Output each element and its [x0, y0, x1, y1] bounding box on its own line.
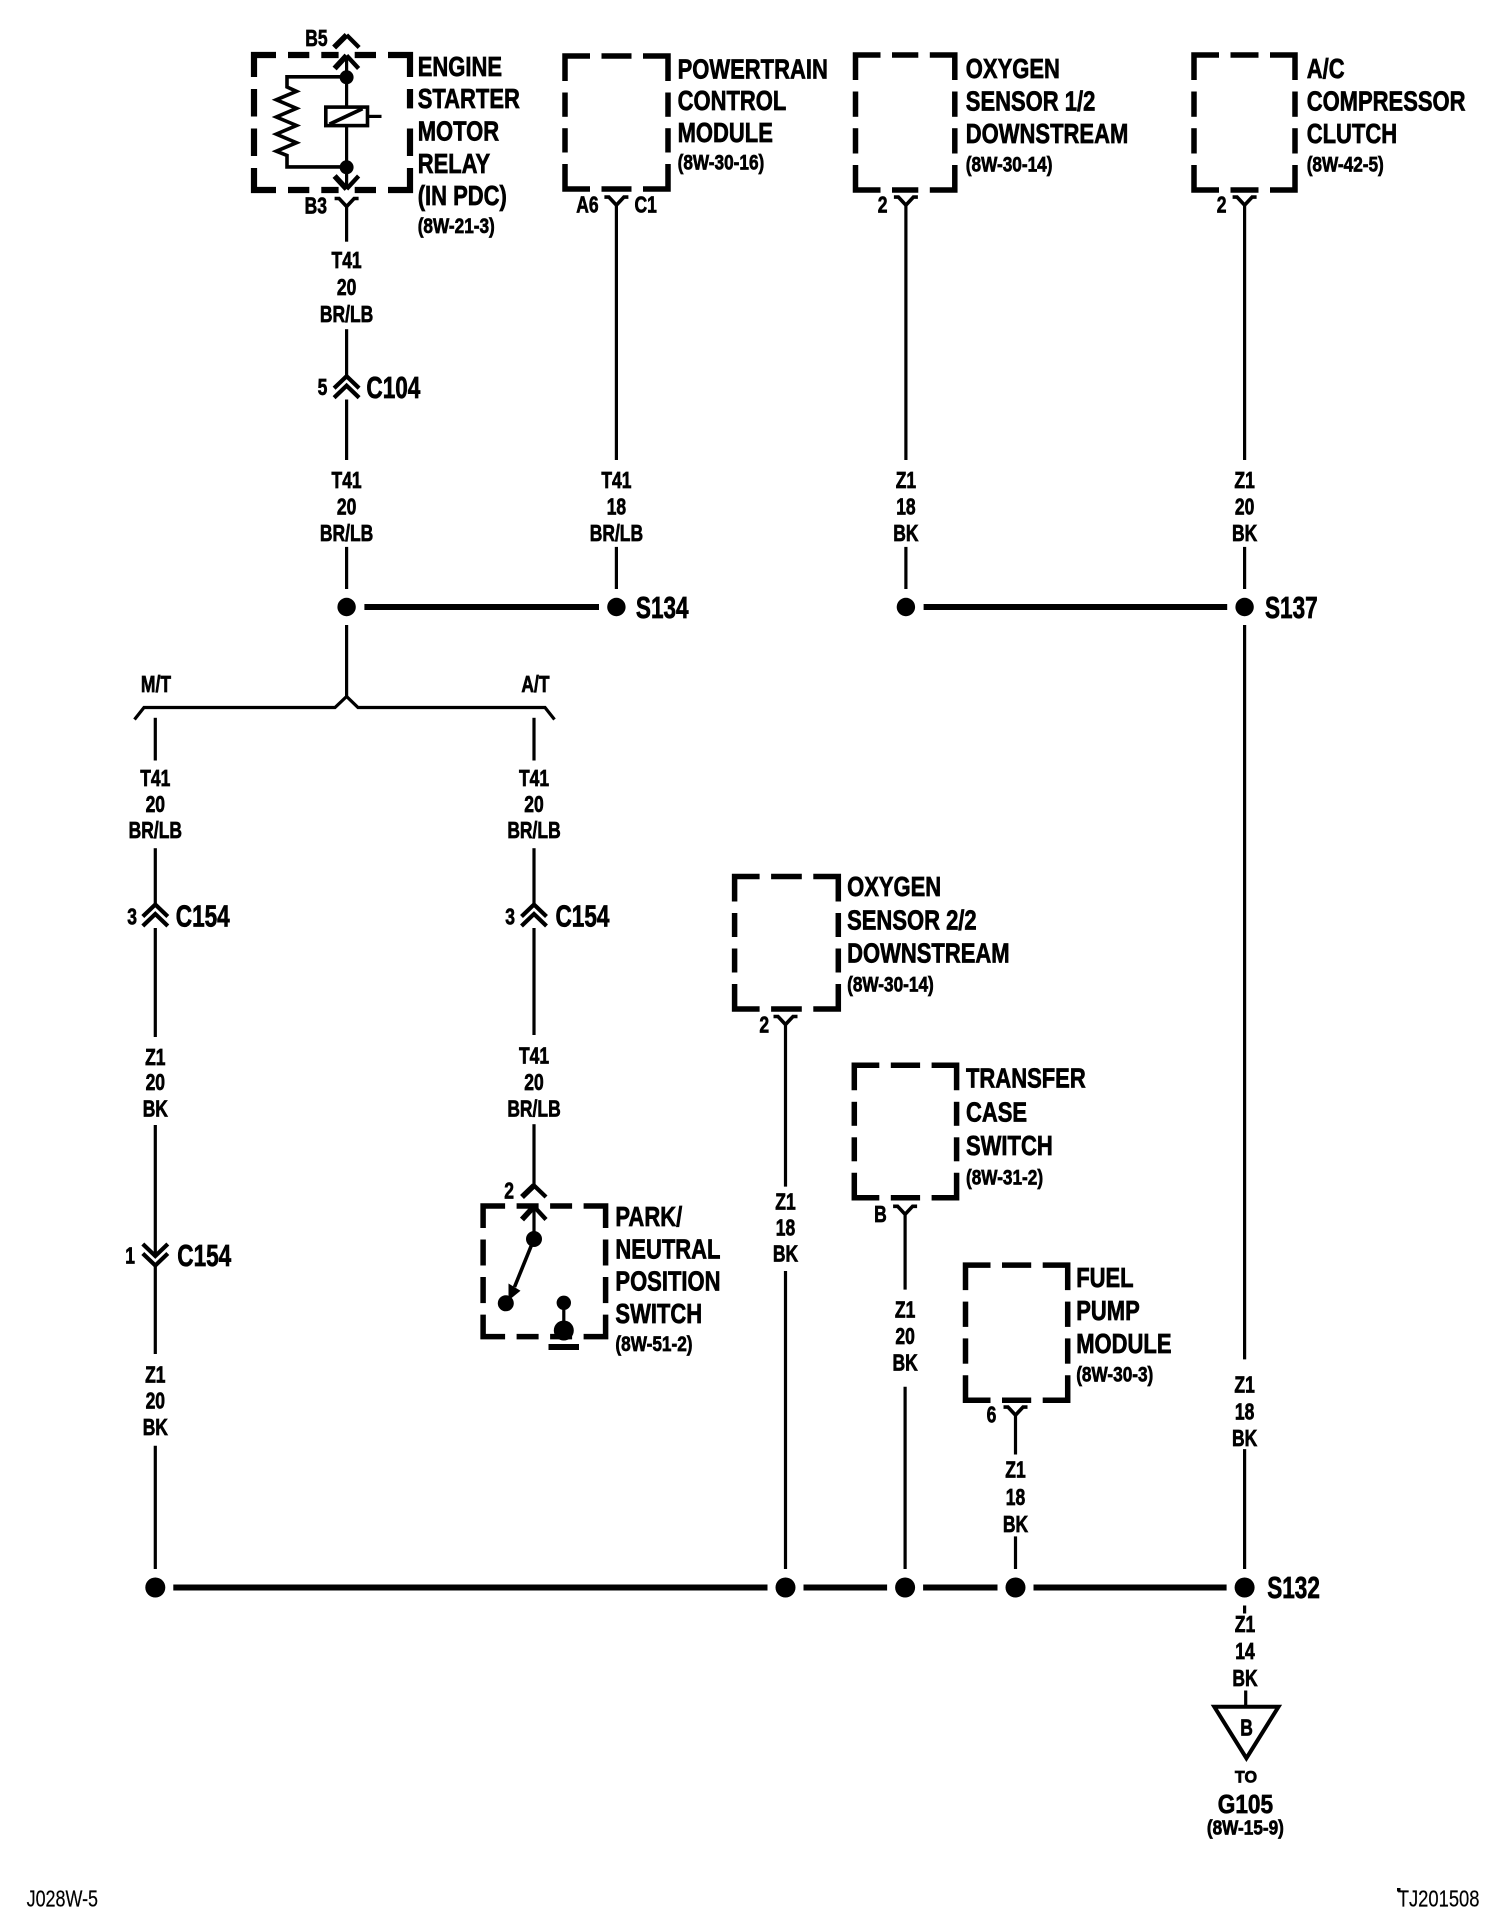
svg-text:2: 2 [759, 1014, 769, 1039]
svg-text:A/C: A/C [1307, 54, 1345, 85]
svg-text:BK: BK [1232, 1667, 1257, 1692]
svg-text:18: 18 [896, 495, 915, 520]
connector Y at A/C pin 2 [1233, 197, 1245, 205]
wire segment to C154 pin 1 [154, 1125, 157, 1254]
wire segment A/T start [532, 718, 535, 761]
svg-text:BR/LB: BR/LB [507, 819, 560, 844]
svg-text:18: 18 [776, 1216, 795, 1241]
svg-text:20: 20 [337, 276, 356, 301]
PNP contact dot (park) [498, 1295, 514, 1311]
svg-text:Z1: Z1 [1235, 1613, 1255, 1638]
wire segment to C154 [154, 848, 157, 903]
svg-text:SENSOR 2/2: SENSOR 2/2 [847, 905, 977, 936]
svg-text:STARTER: STARTER [418, 84, 520, 115]
svg-text:B3: B3 [305, 194, 327, 219]
svg-text:BK: BK [143, 1416, 168, 1441]
svg-text:TJ201508: TJ201508 [1398, 1887, 1480, 1912]
junction dot S132 (A/C) [1235, 1578, 1255, 1598]
svg-text:FUEL: FUEL [1076, 1263, 1133, 1294]
connector Y at PCM A6 [604, 197, 616, 205]
wire segment O2 1/2 to S137 [904, 547, 907, 589]
svg-text:COMPRESSOR: COMPRESSOR [1307, 86, 1466, 117]
wire segment to PNP switch [532, 1124, 535, 1185]
svg-text:ENGINE: ENGINE [418, 52, 502, 83]
svg-text:SENSOR 1/2: SENSOR 1/2 [966, 86, 1096, 117]
connector Y at fuel pump pin 6 [1004, 1407, 1016, 1415]
O2 sensor 2/2 box: OXYGEN SENSOR 2/2 DOWNSTREAM [735, 877, 760, 902]
svg-text:20: 20 [524, 1071, 543, 1096]
relay junction dot top [340, 70, 354, 84]
svg-text:MOTOR: MOTOR [418, 116, 499, 147]
A/C compressor clutch box [1194, 55, 1219, 80]
svg-text:BK: BK [773, 1242, 798, 1267]
wire segment PCM to S134 [615, 547, 618, 589]
svg-text:(8W-42-5): (8W-42-5) [1307, 154, 1384, 177]
junction dot S132 (transfer case) [895, 1578, 915, 1598]
svg-text:(8W-51-2): (8W-51-2) [615, 1334, 692, 1357]
svg-text:NEUTRAL: NEUTRAL [615, 1234, 720, 1265]
svg-text:(8W-31-2): (8W-31-2) [966, 1167, 1043, 1190]
svg-text:A/T: A/T [521, 673, 550, 698]
junction dot S134 right [607, 598, 625, 616]
svg-text:BR/LB: BR/LB [507, 1097, 560, 1122]
connector Y at B3 [335, 199, 347, 207]
svg-text:(8W-21-3): (8W-21-3) [418, 215, 495, 238]
svg-text:2: 2 [1217, 193, 1227, 218]
svg-text:B: B [1240, 1716, 1253, 1741]
svg-text:3: 3 [505, 906, 515, 931]
wire segment to ground symbol [1244, 1691, 1247, 1707]
wire segment below C154 (A/T) [532, 928, 535, 1035]
svg-text:6: 6 [987, 1403, 997, 1428]
in-line connector C154 (A/T) [522, 905, 547, 917]
connector half-arrow above PNP [522, 1186, 534, 1198]
svg-text:18: 18 [607, 495, 626, 520]
wire stub below S132 [1243, 1606, 1246, 1614]
svg-text:20: 20 [146, 1389, 165, 1414]
relay coil [326, 107, 368, 126]
svg-text:BR/LB: BR/LB [129, 819, 182, 844]
O2 sensor 1/2 box: OXYGEN SENSOR 1/2 DOWNSTREAM [856, 55, 881, 80]
svg-text:G105: G105 [1218, 1790, 1273, 1819]
svg-text:Z1: Z1 [896, 469, 916, 494]
svg-text:BR/LB: BR/LB [320, 522, 373, 547]
PNP internal wire [532, 1207, 535, 1237]
junction dot S132 (fuel pump) [1006, 1578, 1026, 1598]
wire segment M/T start [154, 718, 157, 761]
wire segment to S132 [154, 1446, 157, 1569]
svg-text:OXYGEN: OXYGEN [966, 54, 1060, 85]
arrow into relay at top edge [335, 56, 347, 69]
PNP common contact dot [526, 1231, 542, 1247]
svg-text:TRANSFER: TRANSFER [966, 1063, 1086, 1094]
svg-text:C154: C154 [556, 899, 610, 933]
junction dot S132 (O2 2/2) [776, 1578, 796, 1598]
splice S137 rail [924, 604, 1228, 610]
svg-text:C154: C154 [176, 899, 230, 933]
wire segment below C154 pin 1 [154, 1267, 157, 1355]
ground symbol triangle B [1214, 1707, 1278, 1758]
svg-text:MODULE: MODULE [1076, 1329, 1171, 1360]
svg-text:C154: C154 [177, 1239, 231, 1273]
svg-text:S134: S134 [636, 591, 689, 625]
svg-text:BK: BK [1003, 1513, 1028, 1538]
branch bracket wire [135, 697, 555, 720]
wire segment S134 down to branch [345, 625, 348, 698]
svg-text:BR/LB: BR/LB [320, 303, 373, 328]
svg-text:(8W-15-9): (8W-15-9) [1207, 1816, 1284, 1839]
resistor (relay coil suppression) [276, 77, 346, 167]
svg-text:TO: TO [1235, 1767, 1257, 1786]
svg-text:Z1: Z1 [895, 1298, 915, 1323]
arrow out of relay at bottom edge [335, 176, 347, 189]
connector Y at O2 1/2 pin 2 [894, 197, 906, 205]
svg-text:S137: S137 [1265, 591, 1318, 625]
svg-text:B: B [874, 1203, 887, 1228]
svg-text:20: 20 [895, 1325, 914, 1350]
connector Y at O2 2/2 pin 2 [774, 1017, 786, 1025]
svg-text:2: 2 [878, 193, 888, 218]
junction dot S132 (M/T) [145, 1578, 165, 1598]
wire segment to S132 [1243, 1449, 1246, 1569]
svg-text:RELAY: RELAY [418, 149, 491, 180]
wire segment to C154 (A/T) [532, 848, 535, 903]
svg-text:BK: BK [893, 522, 918, 547]
svg-text:C104: C104 [366, 371, 420, 405]
svg-text:T41: T41 [332, 469, 362, 494]
svg-text:PARK/: PARK/ [615, 1202, 682, 1233]
svg-text:T41: T41 [140, 767, 170, 792]
wire segment to S134 [345, 547, 348, 589]
wire segment B3 to C104 [345, 329, 348, 375]
junction dot S137 right [1235, 598, 1253, 616]
svg-text:DOWNSTREAM: DOWNSTREAM [847, 938, 1009, 969]
svg-text:(8W-30-16): (8W-30-16) [678, 152, 765, 175]
svg-text:SWITCH: SWITCH [966, 1131, 1053, 1162]
wire segment O2 2/2 to S132 [784, 1271, 787, 1569]
svg-text:J028W-5: J028W-5 [27, 1886, 98, 1912]
svg-text:CLUTCH: CLUTCH [1307, 119, 1397, 150]
wire segment C104 down [345, 400, 348, 461]
svg-text:A6: A6 [576, 193, 598, 218]
PNP case ground blob [554, 1321, 574, 1341]
PNP switch arm with arrowhead [515, 1239, 535, 1287]
svg-text:14: 14 [1235, 1640, 1255, 1665]
svg-text:2: 2 [504, 1179, 514, 1204]
wire segment A/C to S137 [1243, 547, 1246, 589]
stray mark [1397, 1888, 1401, 1892]
fuel pump module box [966, 1265, 991, 1290]
PCM box: POWERTRAIN CONTROL MODULE [565, 56, 590, 81]
svg-text:MODULE: MODULE [678, 118, 773, 149]
wire segment transfer case to S132 [903, 1387, 906, 1569]
connector half-arrow at B5 [334, 35, 347, 48]
relay junction dot bottom [340, 160, 354, 174]
wire segment below C154 [154, 928, 157, 1037]
svg-text:BK: BK [892, 1351, 917, 1376]
svg-text:Z1: Z1 [145, 1046, 165, 1071]
svg-text:Z1: Z1 [1005, 1459, 1025, 1484]
svg-text:M/T: M/T [141, 673, 172, 698]
connector Y at transfer case pin B [893, 1206, 905, 1214]
splice S134 rail [364, 604, 599, 610]
svg-text:20: 20 [524, 793, 543, 818]
svg-text:T41: T41 [601, 469, 631, 494]
relay coil stub to box edge [368, 115, 382, 118]
relay internal wire [345, 56, 348, 189]
svg-text:OXYGEN: OXYGEN [847, 872, 941, 903]
svg-text:BK: BK [1232, 1427, 1257, 1452]
wire segment S137 down [1243, 625, 1246, 1359]
svg-text:3: 3 [127, 906, 137, 931]
svg-text:Z1: Z1 [1234, 1373, 1254, 1398]
junction dot S137 left [897, 598, 915, 616]
svg-text:DOWNSTREAM: DOWNSTREAM [966, 119, 1128, 150]
svg-text:18: 18 [1235, 1400, 1254, 1425]
svg-text:CONTROL: CONTROL [678, 86, 787, 117]
junction dot S134 left [337, 598, 355, 616]
svg-text:T41: T41 [519, 767, 549, 792]
relay K1 box: ENGINE STARTER MOTOR RELAY (IN PDC) [254, 55, 276, 77]
in-line connector C154 (down) [143, 1254, 168, 1266]
svg-text:T41: T41 [332, 249, 362, 274]
svg-text:20: 20 [337, 495, 356, 520]
svg-text:Z1: Z1 [1234, 469, 1254, 494]
in-line connector C154 (M/T) [143, 905, 168, 917]
svg-text:1: 1 [125, 1244, 135, 1269]
PNP contact dot (ground side) [557, 1296, 571, 1310]
PNP switch box: PARK/NEUTRAL POSITION SWITCH [483, 1206, 505, 1228]
svg-text:Z1: Z1 [145, 1363, 165, 1388]
svg-text:C1: C1 [635, 193, 657, 218]
svg-text:S132: S132 [1267, 1571, 1320, 1605]
svg-text:T41: T41 [519, 1044, 549, 1069]
svg-text:POWERTRAIN: POWERTRAIN [678, 54, 828, 85]
svg-text:5: 5 [318, 376, 328, 401]
svg-text:PUMP: PUMP [1076, 1296, 1140, 1327]
svg-text:18: 18 [1006, 1486, 1025, 1511]
svg-text:BK: BK [1232, 522, 1257, 547]
splice S132 rail [173, 1585, 767, 1591]
svg-text:20: 20 [146, 1071, 165, 1096]
svg-text:(8W-30-14): (8W-30-14) [966, 154, 1053, 177]
svg-text:BK: BK [143, 1098, 168, 1123]
svg-text:POSITION: POSITION [615, 1266, 720, 1297]
svg-text:(8W-30-14): (8W-30-14) [847, 974, 934, 997]
in-line connector C104 [334, 376, 359, 388]
svg-text:20: 20 [1235, 495, 1254, 520]
svg-text:20: 20 [146, 793, 165, 818]
svg-text:CASE: CASE [966, 1097, 1027, 1128]
svg-text:SWITCH: SWITCH [615, 1299, 702, 1330]
svg-text:(IN PDC): (IN PDC) [418, 181, 507, 212]
svg-text:Z1: Z1 [775, 1190, 795, 1215]
PNP case ground bar [549, 1344, 580, 1350]
wire segment fuel pump to S132 [1014, 1536, 1017, 1569]
svg-text:B5: B5 [305, 27, 327, 52]
PNP ground contact wire [562, 1303, 565, 1325]
arrow into PNP at top edge [522, 1207, 534, 1220]
transfer case switch box [854, 1065, 879, 1090]
svg-text:(8W-30-3): (8W-30-3) [1076, 1364, 1153, 1387]
svg-text:BR/LB: BR/LB [590, 522, 643, 547]
